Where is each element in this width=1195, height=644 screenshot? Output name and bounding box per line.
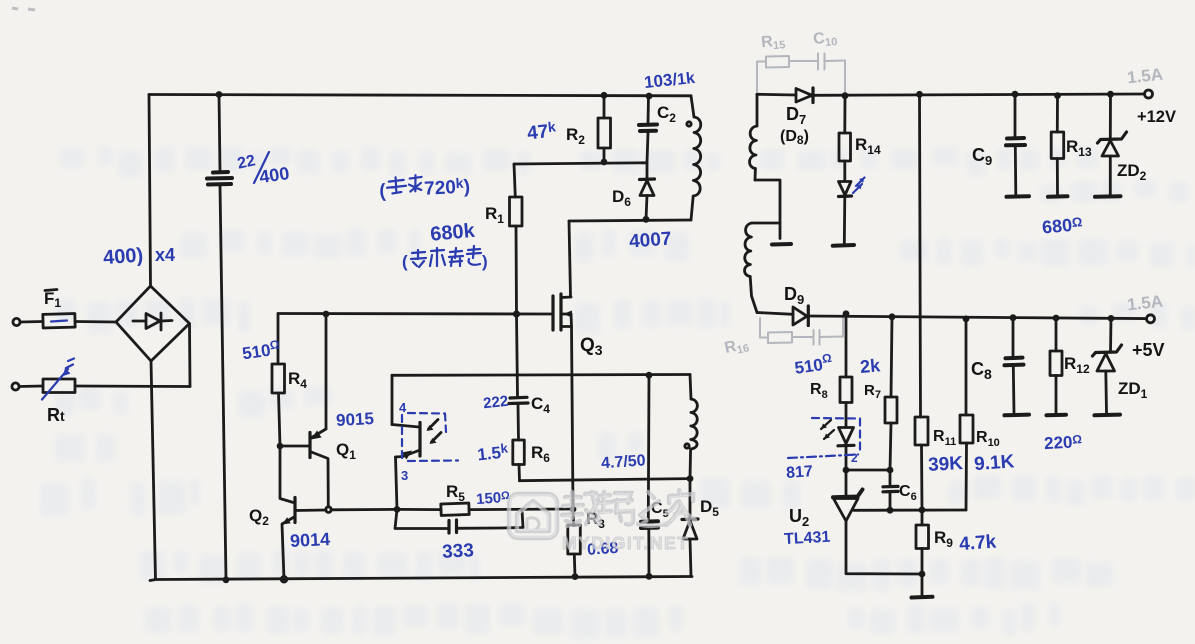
svg-text:4: 4 [399,400,407,415]
pencil wire D9 snubber drops [760,318,843,338]
diode D7 [780,88,813,147]
resistor R12 [1047,315,1090,416]
optocoupler LED dashed box [788,418,860,458]
svg-text:+12V: +12V [1137,108,1176,126]
value label 220 ohm [1044,432,1083,453]
svg-text:+5V: +5V [1132,340,1165,360]
optocoupler transistor dashed box [402,413,458,461]
watermark char ma [598,492,633,524]
wire R6 bottom to aux winding bottom [520,479,691,481]
transformer secondary winding B [745,223,780,313]
optocoupler pin 2 [851,451,858,465]
capacitor C6 [883,470,917,510]
value label 510 ohm (R4) [241,337,282,363]
value label (720k measured) [379,172,471,202]
snubber R16 (pencil) [723,332,812,359]
svg-text:1.5A: 1.5A [1126,65,1164,88]
capacitor C8 [971,314,1029,415]
value label 22/400 [236,152,291,187]
wire R11 from +12V rail [916,91,923,417]
resistor R7 [864,313,897,470]
opto LED emission arrows (blue) [821,420,834,439]
value label 150 ohm [476,489,511,508]
paper bleed-through marks (decorative) [40,147,1195,639]
svg-text:9015: 9015 [336,409,375,430]
zener ZD2 [1095,91,1147,197]
resistor R14 [839,92,881,181]
shunt regulator U2 TL431 [789,470,925,577]
value label 103/1k [643,68,696,92]
svg-text:2: 2 [851,451,858,465]
resistor R13 [1048,92,1092,197]
svg-text:333: 333 [442,540,475,563]
diode D5 [682,479,719,577]
snubber C16 cap (pencil) [812,330,843,345]
AC input terminal N [12,383,19,390]
svg-text:680k: 680k [429,220,476,246]
wire fuse to bridge [75,320,116,323]
svg-text:2k: 2k [859,355,882,377]
svg-text:39K: 39K [928,453,964,476]
svg-text:9.1K: 9.1K [973,451,1015,475]
resistor R3 [568,509,605,580]
svg-text:817: 817 [786,463,814,482]
diode D9 [784,284,808,326]
value label 333 [442,540,475,563]
value label 2k [859,355,882,377]
svg-text:): ) [482,252,488,271]
optocoupler phototransistor [392,375,441,509]
wire +12V rail [813,94,1145,95]
fuse F1 [43,289,75,328]
value label 47k [526,118,557,144]
watermark text MYDIGIT.NET [562,533,689,553]
wire winding A top to D7 [757,93,796,96]
resistor R9 [916,510,953,574]
svg-text:4.7/50: 4.7/50 [601,452,647,472]
watermark logo house [509,494,557,538]
node open circle junction on Q2 base line [326,507,332,513]
resistor R11 [915,417,956,510]
resistor R2 [566,92,611,166]
wire bottom rail [150,577,692,581]
svg-text:1.5A: 1.5A [1126,292,1164,315]
svg-text:(: ( [402,252,408,271]
value label 39K [928,453,964,476]
watermark char zhi [638,492,666,526]
transistor Q1 9015 [280,314,356,507]
optocoupler pin 4 [399,400,407,415]
capacitor C4 [509,314,550,440]
resistor R4 [272,314,307,447]
LED light arrows (blue) [853,178,865,194]
value label 510 ohm (R8) [793,351,834,378]
transformer primary winding [687,96,701,220]
svg-text:(D8): (D8) [780,128,809,147]
node Q1 base junction [277,443,284,450]
value label 9015 [336,409,375,430]
resistor R5 [397,482,573,515]
value label 680 ohm [1041,214,1083,237]
value label 4007 [628,229,672,253]
snubber C10 (pencil) [812,29,845,70]
resistor R1 [485,164,522,314]
ground [912,574,933,598]
wire gate line [278,310,553,317]
transformer aux winding [685,375,698,483]
thermistor Rt [43,379,75,425]
part label 817 [786,463,814,482]
wire terminal L to fuse [20,320,43,323]
snubber R15 (pencil) [757,32,812,67]
wire drain node line [569,220,691,221]
svg-text:x4: x4 [155,245,175,265]
LED indicator [833,182,854,246]
pencil wire D7 snubber drops [757,61,845,94]
capacitor C2 [639,93,676,163]
wire bridge top vertex to top rail [149,95,151,287]
current label 1.5A (pencil, +5V) [1126,292,1164,315]
wire TL431 ref line [854,507,967,514]
diode D6 [612,163,655,223]
wire terminal N to thermistor [19,385,43,388]
wire +5V rail [808,316,1146,319]
zener ZD1 [1093,315,1148,415]
value label 680k [429,220,476,246]
svg-text:222: 222 [482,393,509,413]
+5V output terminal [1132,315,1165,360]
mosfet Q3 [553,294,603,509]
wire Rt to bridge right leg [75,385,190,388]
svg-text:4.7k: 4.7k [959,532,998,556]
node source sense junction [570,506,577,513]
value label 400) x4 [102,244,175,269]
svg-text:Rt: Rt [47,405,65,425]
wire LED cathode to C6 branch [846,467,893,474]
watermark char shu [562,492,600,526]
value label (color code) [402,246,488,271]
bridge rectifier [116,286,190,361]
node Q2 emitter open circle on bottom rail [281,577,287,583]
capacitor C1 22/400 [207,91,232,583]
value label 0.68 [587,540,619,559]
wire bridge right vertex down [188,324,191,387]
svg-text:MYDIGIT.NET: MYDIGIT.NET [562,533,689,553]
svg-text:720k): 720k) [424,174,471,199]
AC input terminal L [13,318,20,325]
svg-text:400: 400 [258,163,291,187]
wire top rail [149,95,691,96]
capacitor C5 [641,375,669,580]
svg-text:400): 400) [102,244,143,269]
wire winding B bottom to D9 [757,313,793,315]
transistor Q2 9014 [249,446,397,580]
wire bridge bottom vertex to bottom rail [151,361,156,580]
svg-text:4007: 4007 [628,229,672,253]
svg-text:3: 3 [401,468,408,483]
value label 4.7/50 [601,452,647,472]
node LED cathode junction [843,467,850,474]
svg-text:9014: 9014 [290,529,331,551]
part label TL431 [784,529,831,548]
resistor R10 [960,316,1000,511]
+12V output terminal [1137,90,1176,126]
optocoupler pin 3 [401,468,408,483]
resistor R8 [810,310,852,427]
wire snubber node line [514,163,646,164]
thermistor arrow [42,359,74,400]
value label 9.1K [973,451,1015,475]
svg-text:TL431: TL431 [784,529,831,548]
fuse element mark [51,321,67,322]
wire mid rail [392,372,690,379]
value label 9014 [290,529,331,551]
wire drain down to mosfet [569,221,571,297]
value label 222 [482,393,509,413]
value label 4.7k [959,532,998,556]
node R5 junction [394,506,401,513]
value label 1.5k [476,440,510,464]
transformer secondary winding A [750,94,757,180]
current label 1.5A (pencil, +12V) [1126,65,1164,88]
optocoupler LED [838,428,854,471]
resistor R6 [513,440,550,481]
capacitor C9 [972,91,1029,197]
wire secondary center tap [755,180,791,245]
capacitor C3 333 [395,509,523,533]
watermark char jia [666,490,695,525]
svg-text:22: 22 [236,152,257,172]
